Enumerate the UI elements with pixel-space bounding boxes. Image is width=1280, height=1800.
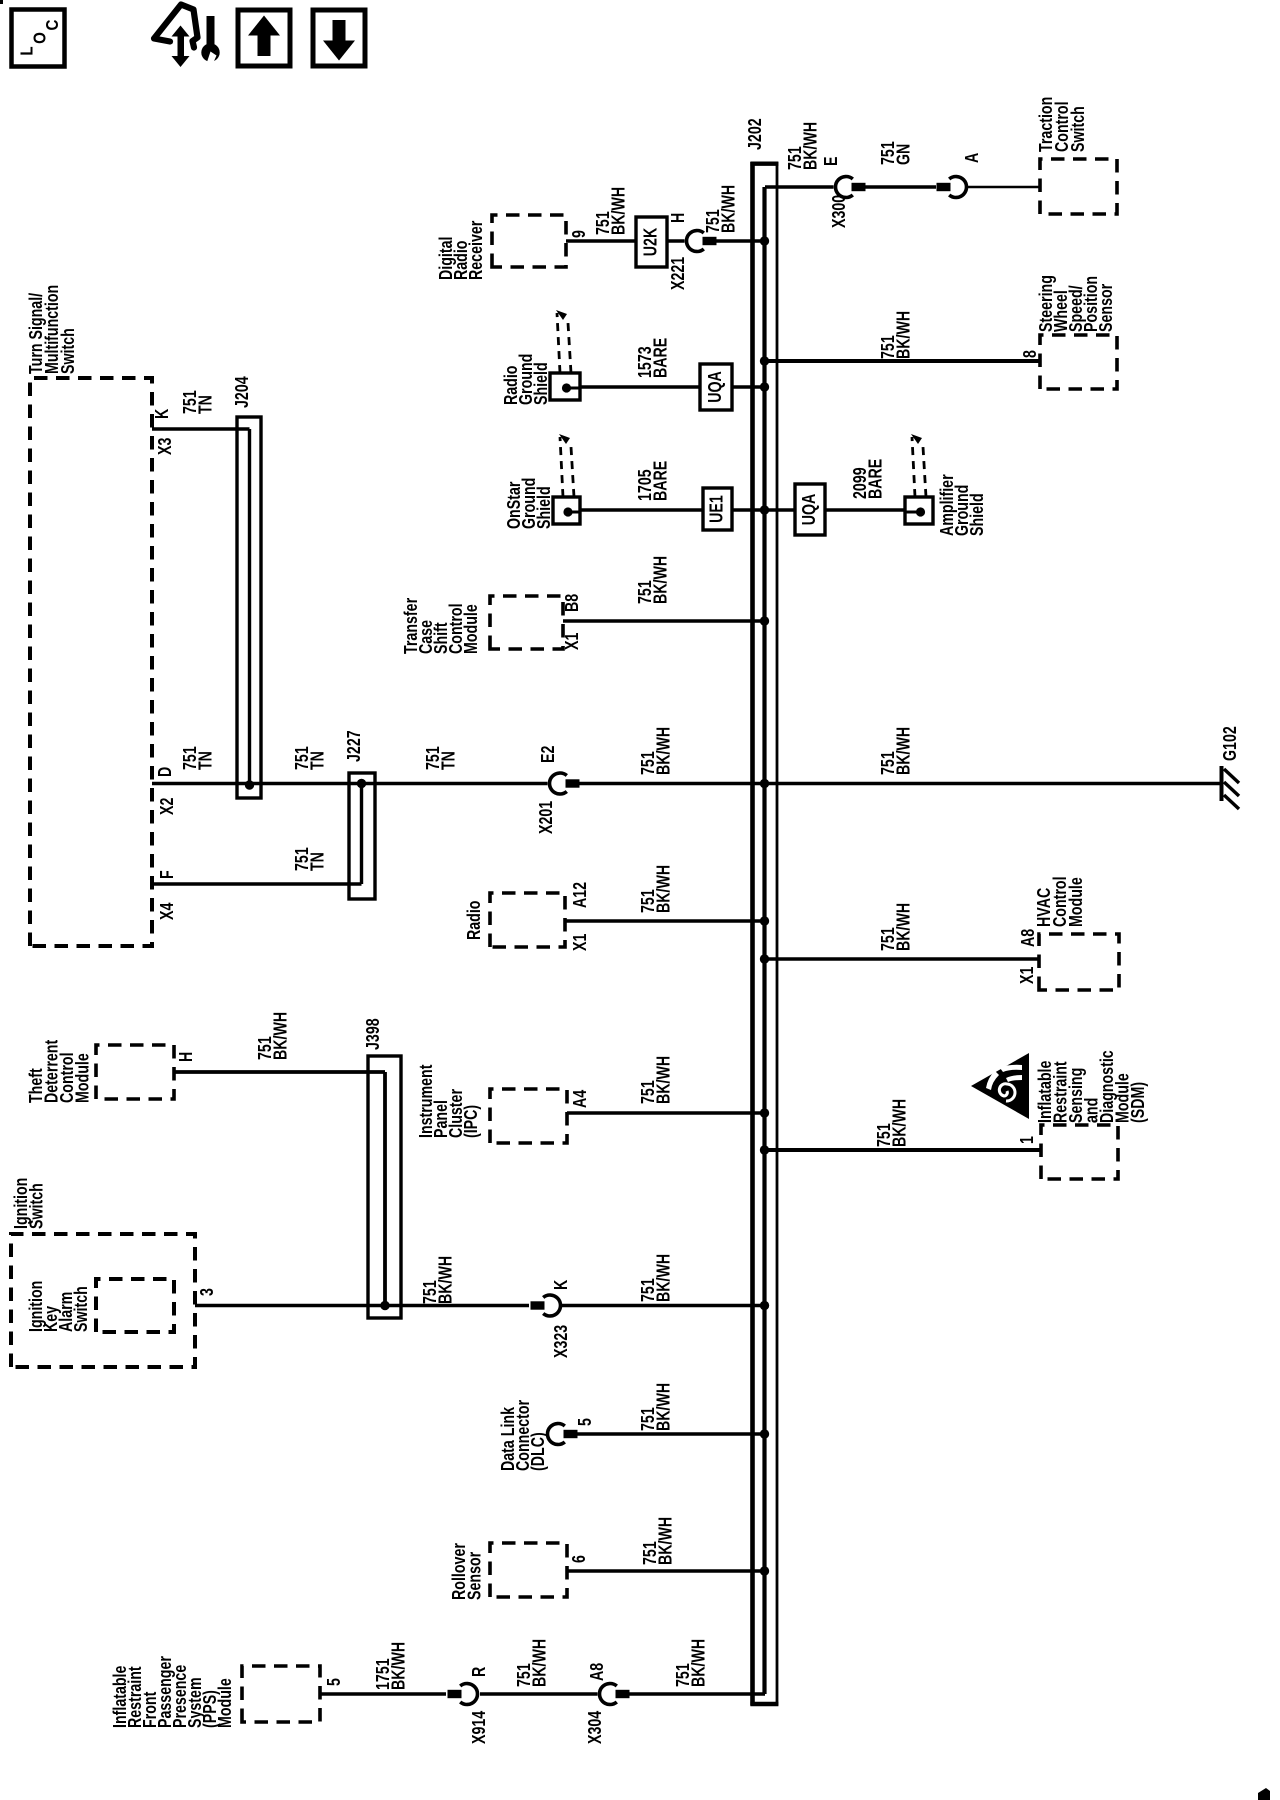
wire bus to UQA — [765, 508, 795, 511]
J398 internal conductor — [383, 1072, 387, 1306]
label 751 BK/WH (theft wire) — [255, 1012, 290, 1060]
label 751 BK/WH (X914-X304) — [514, 1639, 549, 1687]
svg-text:F: F — [157, 870, 177, 879]
svg-text:H: H — [668, 213, 688, 223]
svg-text:8: 8 — [1020, 350, 1040, 358]
label 1573 BARE — [635, 338, 670, 378]
Radio Ground Shield symbol — [550, 310, 580, 400]
Traction Control Switch box — [1040, 159, 1117, 214]
pin A8 (HVAC) — [1018, 929, 1038, 947]
pin B8 — [562, 594, 582, 612]
label Traction Control Switch — [1036, 97, 1088, 152]
junction dot bus/DLC — [760, 1429, 769, 1438]
label Theft Deterrent Control Module — [26, 1039, 92, 1103]
pin A8 (X304) — [587, 1663, 607, 1681]
pin K — [152, 408, 172, 419]
pin E2 — [538, 746, 558, 763]
wire 751 BK/WH X221 to bus — [715, 239, 765, 242]
Steering Wheel Speed/Position Sensor box — [1040, 335, 1117, 389]
label 751 BK/WH (X323 to bus) — [638, 1254, 673, 1302]
label connector X914 — [469, 1711, 489, 1744]
svg-text:X300: X300 — [829, 195, 849, 228]
label connector X3 — [155, 438, 175, 455]
label J202 — [745, 118, 765, 150]
connector X914 — [448, 1684, 478, 1705]
svg-text:L: L — [16, 46, 37, 55]
svg-text:IgnitionSwitch: IgnitionSwitch — [11, 1178, 46, 1229]
label 751 BK/WH (transfer) — [635, 556, 670, 604]
wire 751 TN / 751 BK/WH pin D to G102 — [152, 782, 548, 785]
Transfer Case Shift Control Module box — [490, 596, 563, 649]
pin 5 (PPS) — [324, 1678, 344, 1686]
connector X323 — [531, 1295, 561, 1316]
label connector X2 — [157, 798, 177, 815]
junction dot bus/HVAC — [760, 954, 769, 963]
svg-text:E2: E2 — [538, 746, 558, 763]
label 751 TN (D wire middle) — [292, 746, 327, 770]
svg-text:X1: X1 — [562, 633, 582, 650]
svg-text:J398: J398 — [363, 1018, 383, 1050]
splice pack J202 bus — [750, 162, 778, 1706]
label 751 BK/WH (ignition upper) — [420, 1256, 455, 1304]
svg-text:3: 3 — [197, 1288, 217, 1296]
pin 8 — [1020, 350, 1040, 358]
label J227 — [344, 730, 364, 762]
svg-text:X914: X914 — [469, 1711, 489, 1744]
svg-text:K: K — [551, 1279, 571, 1290]
svg-text:9: 9 — [569, 230, 589, 238]
toolbar adjust icon — [154, 5, 220, 68]
svg-text:B8: B8 — [562, 594, 582, 612]
wire U2K to X221 — [667, 239, 685, 242]
svg-text:A8: A8 — [587, 1663, 607, 1681]
svg-text:5: 5 — [324, 1678, 344, 1686]
label 751 BK/WH (DLC) — [638, 1383, 673, 1431]
svg-text:1: 1 — [1017, 1136, 1037, 1144]
Radio box — [490, 893, 565, 947]
label 751 BK/WH (E wire) — [785, 122, 820, 170]
Ignition Switch outer box — [11, 1234, 195, 1367]
junction dot bus/D-wire — [760, 779, 769, 788]
connector X304 — [599, 1684, 629, 1705]
junction dot bus/rollover — [760, 1566, 769, 1575]
svg-text:A: A — [962, 152, 982, 163]
splice UE1 — [703, 488, 732, 530]
svg-text:X3: X3 — [155, 438, 175, 455]
label 751 BK/WH (X221) — [703, 185, 738, 233]
pin F — [157, 870, 177, 879]
label Ignition Key Alarm Switch — [26, 1281, 91, 1332]
wire 751 BK/WH radio to bus — [565, 919, 765, 922]
pin 9 — [569, 230, 589, 238]
label connector X1 (transfer) — [562, 633, 582, 650]
svg-text:A8: A8 — [1018, 929, 1038, 947]
SDM warning triangle — [971, 1053, 1029, 1119]
OnStar Ground Shield symbol — [553, 434, 580, 524]
svg-text:X2: X2 — [157, 798, 177, 815]
label Data Link Connector DLC — [498, 1399, 548, 1471]
svg-text:UQA: UQA — [799, 493, 819, 525]
label 2099 BARE — [850, 459, 885, 499]
Inflatable Restraint PPS Module box — [242, 1666, 320, 1722]
wire UQA to bus — [732, 385, 765, 388]
splice UQA upper — [700, 364, 732, 410]
wire 751 BK/WH receiver to U2K — [566, 239, 636, 242]
toolbar LOC button — [12, 10, 65, 67]
svg-text:J204: J204 — [232, 376, 252, 408]
label 751 GN — [878, 141, 913, 165]
label 751 BK/WH (SDM) — [874, 1099, 909, 1147]
label 751 BK/WH (receiver) — [593, 187, 628, 235]
label 751 TN (F wire) — [292, 847, 327, 871]
wire 1751 BK/WH PPS to X914 — [320, 1692, 446, 1695]
pin 3 — [197, 1288, 217, 1296]
wire 751 BK/WH DLC to bus — [576, 1432, 765, 1435]
label J204 — [232, 376, 252, 408]
label connector X201 — [536, 801, 556, 834]
svg-text:D: D — [155, 766, 175, 777]
wire 751 BK/WH bus to X300 — [765, 185, 834, 188]
svg-text:K: K — [152, 408, 172, 419]
wire 751 BK/WH bus to SDM — [765, 1148, 1041, 1152]
pin 5 (DLC) — [575, 1418, 595, 1426]
svg-text:R: R — [469, 1666, 489, 1677]
pin A — [962, 152, 982, 163]
label Radio Ground Shield — [501, 354, 551, 405]
toolbar down button — [313, 10, 365, 66]
label Inflatable Restraint Sensing and Diagnostic Module SDM — [1035, 1050, 1148, 1123]
label 751 BK/WH (X201 to bus) — [638, 727, 673, 775]
junction dot bus/UQA — [760, 382, 769, 391]
connector X201 — [549, 773, 579, 794]
svg-text:UQA: UQA — [705, 371, 725, 403]
label 751 TN (D wire lower) — [423, 746, 458, 770]
svg-text:UE1: UE1 — [707, 495, 727, 523]
label connector X1 (HVAC) — [1017, 967, 1037, 984]
svg-text:H: H — [176, 1052, 196, 1062]
pin D — [155, 766, 175, 777]
svg-text:X304: X304 — [585, 1711, 605, 1744]
pin A4 — [570, 1090, 590, 1108]
wire 751 BK/WH ignition to bus — [195, 1304, 529, 1307]
label connector X300 — [829, 195, 849, 228]
label connector X221 — [668, 257, 688, 290]
wire UE1 to bus — [732, 508, 765, 511]
svg-text:O: O — [29, 32, 50, 44]
wire 751 BK/WH rollover to bus — [567, 1569, 765, 1572]
wire 751 BK/WH X914 to X304 — [480, 1692, 598, 1695]
svg-text:Radio: Radio — [464, 900, 484, 940]
pin 6 — [569, 1555, 589, 1563]
label J398 — [363, 1018, 383, 1050]
junction dot bus/X221 — [760, 236, 769, 245]
wire 751 TN pin F — [152, 882, 362, 885]
label connector X1 (radio) — [570, 934, 590, 951]
junction dot bus/SDM — [760, 1145, 769, 1154]
svg-text:X4: X4 — [157, 903, 177, 920]
wire 751 GN — [865, 185, 936, 188]
wire 2099 BARE UQA to amplifier shield — [825, 508, 905, 511]
SDM box — [1041, 1125, 1118, 1179]
junction dot bus/steering — [760, 356, 769, 365]
Digital Radio Receiver box — [492, 215, 566, 267]
svg-text:C: C — [42, 20, 63, 31]
label connector X4 — [157, 903, 177, 920]
connector X300 upper half — [835, 176, 865, 197]
svg-text:6: 6 — [569, 1555, 589, 1563]
junction dot bus/IPC — [760, 1108, 769, 1117]
wire 1705 BARE shield to UE1 — [580, 508, 703, 511]
label HVAC Control Module — [1034, 876, 1086, 927]
junction dot J398/ignition wire — [380, 1301, 389, 1310]
pin A12 — [570, 882, 590, 908]
junction dot J227/D-wire — [357, 779, 366, 788]
label 751 BK/WH (rollover) — [640, 1517, 675, 1565]
svg-text:A4: A4 — [570, 1090, 590, 1108]
ground G102 symbol — [1222, 766, 1240, 809]
svg-text:J227: J227 — [344, 730, 364, 762]
Ignition Key Alarm Switch box — [96, 1279, 174, 1332]
label Digital Radio Receiver — [436, 220, 486, 280]
pin R — [469, 1666, 489, 1677]
toolbar up button — [238, 10, 290, 66]
junction dot J204/D-wire — [245, 780, 254, 789]
J227 internal conductor — [360, 784, 363, 885]
wire 1573 BARE shield to UQA — [580, 385, 700, 388]
junction dot bus/radio — [760, 916, 769, 925]
label Transfer Case Shift Control Module — [401, 597, 481, 654]
label 751 BK/WH (IPC) — [638, 1056, 673, 1104]
HVAC Control Module box — [1039, 934, 1119, 990]
svg-text:J202: J202 — [745, 118, 765, 150]
label 751 BK/WH (steering) — [878, 311, 913, 359]
label 1705 BARE — [635, 461, 670, 501]
Theft Deterrent Control Module box — [96, 1045, 174, 1099]
svg-text:X1: X1 — [1017, 967, 1037, 984]
label Instrument Panel Cluster IPC — [416, 1064, 481, 1138]
wire 751 BK/WH transfer case to bus — [563, 619, 765, 622]
label connector X323 — [551, 1325, 571, 1358]
svg-text:E: E — [821, 156, 841, 166]
connector X221 — [686, 231, 716, 252]
pin H (theft) — [176, 1052, 196, 1062]
svg-text:X323: X323 — [551, 1325, 571, 1358]
label OnStar Ground Shield — [504, 478, 554, 529]
label 751 BK/WH (X304 to bus) — [673, 1639, 708, 1687]
svg-text:U2K: U2K — [641, 228, 661, 257]
label Rollover Sensor — [449, 1543, 484, 1600]
label 751 TN (D wire upper) — [180, 746, 215, 770]
pin K (X323) — [551, 1279, 571, 1290]
junction dot bus/ignition wire — [760, 1301, 769, 1310]
svg-text:X201: X201 — [536, 801, 556, 834]
label G102 — [1220, 726, 1240, 761]
junction dot bus/UE1 — [760, 505, 769, 514]
wire 751 BK/WH theft to J398 — [174, 1070, 385, 1074]
label Ignition Switch — [11, 1178, 46, 1229]
connector X300 lower half — [937, 176, 967, 197]
label Steering Wheel Speed Position Sensor — [1036, 275, 1116, 332]
svg-text:751GN: 751GN — [878, 141, 913, 165]
splice pack J227 — [349, 773, 375, 899]
wire 751 BK/WH bus to steering sensor — [765, 359, 1040, 363]
label 751 BK/WH (bus to G102) — [878, 727, 913, 775]
pin H (X221) — [668, 213, 688, 223]
svg-text:X221: X221 — [668, 257, 688, 290]
label 751 BK/WH (HVAC) — [878, 903, 913, 951]
svg-text:X1: X1 — [570, 934, 590, 951]
svg-text:A12: A12 — [570, 882, 590, 908]
Amplifier Ground Shield symbol — [905, 434, 933, 524]
label 751 BK/WH (radio) — [638, 865, 673, 913]
splice pack J398 — [368, 1056, 401, 1318]
pin E — [821, 156, 841, 166]
svg-text:G102: G102 — [1220, 726, 1240, 761]
label connector X304 — [585, 1711, 605, 1744]
splice U2K — [636, 217, 667, 267]
wire 751 BK/WH bus to HVAC — [765, 957, 1039, 960]
connector DLC — [547, 1424, 577, 1445]
label Amplifier Ground Shield — [937, 474, 987, 536]
J202 bus conductor wire — [762, 187, 766, 1694]
label 751 TN (K wire) — [180, 390, 215, 414]
Turn Signal/Multifunction Switch box — [30, 378, 152, 946]
splice UQA lower — [795, 484, 825, 535]
label 1751 BK/WH — [373, 1642, 408, 1690]
wire X300 to traction switch — [968, 186, 1040, 189]
label Radio — [464, 900, 484, 940]
Instrument Panel Cluster box — [490, 1089, 567, 1143]
svg-text:5: 5 — [575, 1418, 595, 1426]
pin 1 — [1017, 1136, 1037, 1144]
label Inflatable Restraint Front Passenger Presence System PPS Module — [110, 1655, 235, 1728]
wire 751 TN pin K — [152, 427, 250, 430]
splice pack J204 — [237, 417, 261, 798]
Rollover Sensor box — [490, 1543, 567, 1597]
junction dot bus/transfer — [760, 616, 769, 625]
J204 internal conductor — [248, 429, 251, 784]
wire 751 BK/WH X304 to bus — [629, 1692, 765, 1695]
wire 751 BK/WH IPC to bus — [567, 1111, 765, 1114]
label Turn Signal/Multifunction Switch — [26, 285, 78, 374]
